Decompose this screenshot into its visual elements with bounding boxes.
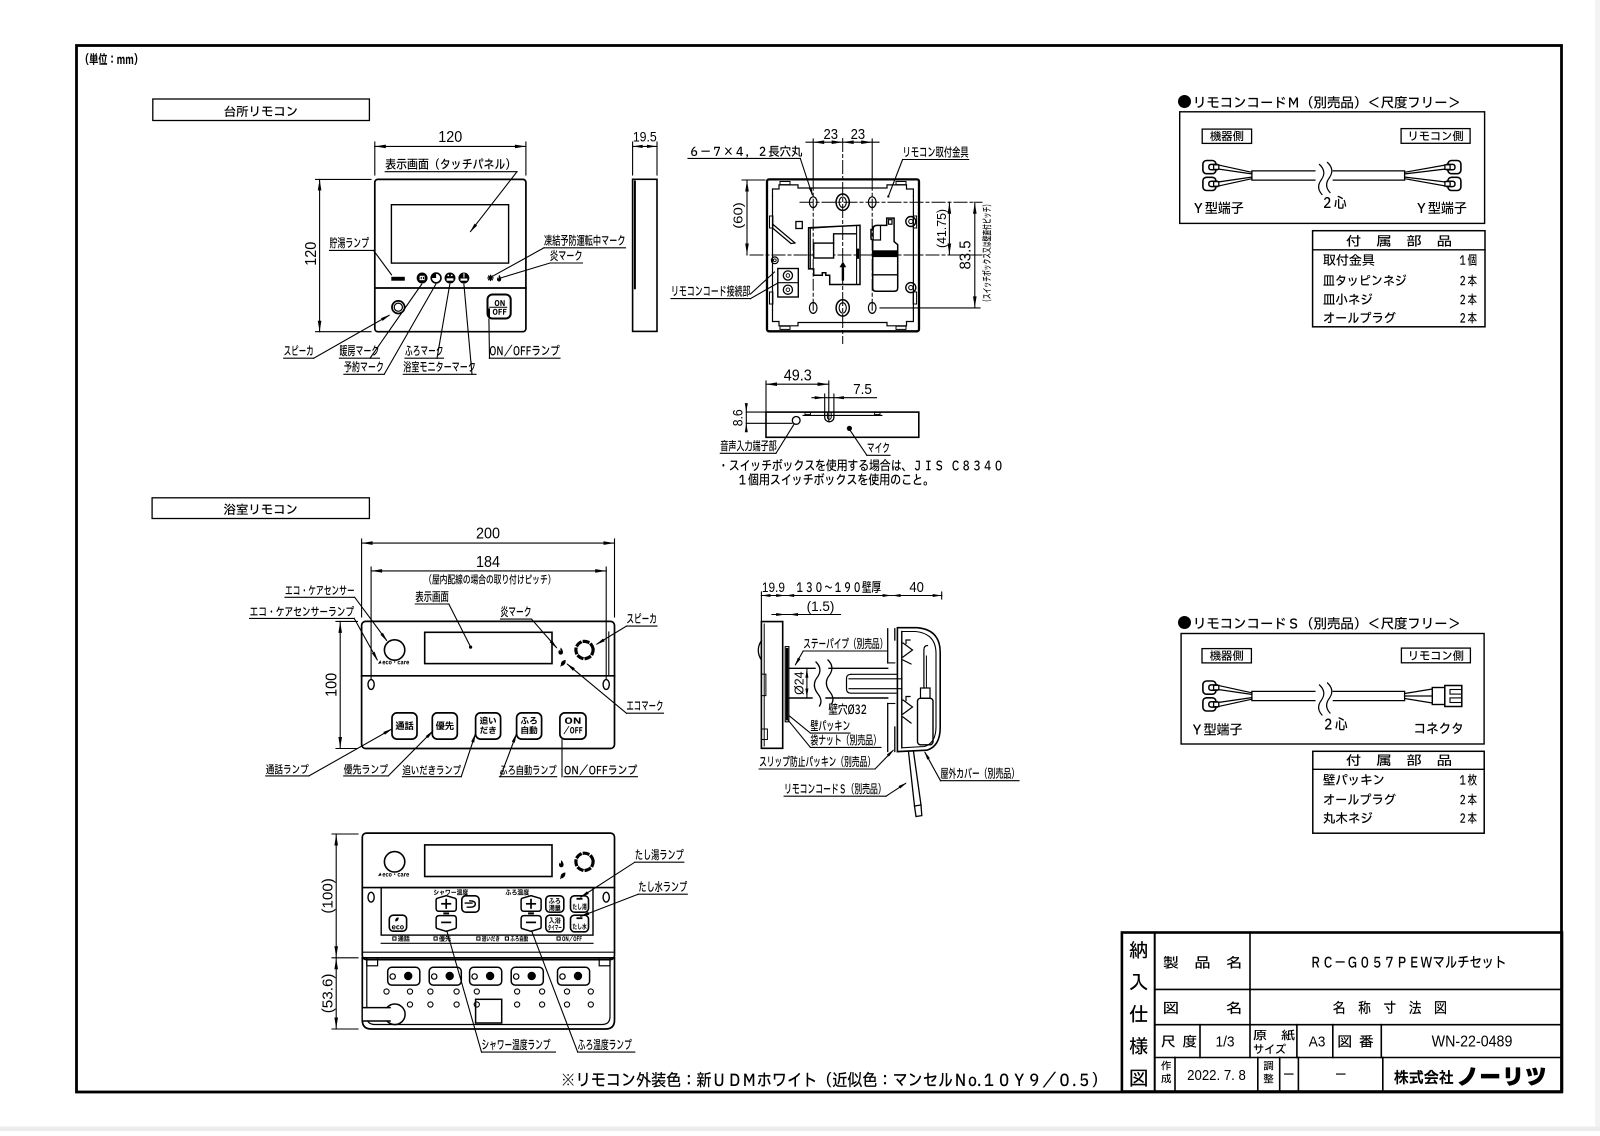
svg-text:(100): (100) xyxy=(321,878,337,914)
rear screw top-right xyxy=(906,217,916,227)
install wall section xyxy=(888,629,895,752)
label add hot water lamp xyxy=(580,849,684,898)
bath minus button xyxy=(521,916,541,932)
dim dia24 xyxy=(792,668,808,698)
label bath temp lamp xyxy=(532,931,635,1052)
note switch box pitch rotated xyxy=(982,205,991,302)
label display screen (touch panel) xyxy=(385,158,517,232)
accessory table M row1 xyxy=(1323,254,1476,266)
svg-text:49.3: 49.3 xyxy=(784,367,812,385)
bath hole right xyxy=(603,680,609,690)
cord M device side tag xyxy=(1202,129,1251,143)
svg-text:(60): (60) xyxy=(730,202,745,229)
open view display screen xyxy=(425,845,552,877)
open view eco care tiny label xyxy=(378,873,409,877)
rear hole top-center xyxy=(836,194,849,210)
dim 100 xyxy=(323,621,358,748)
svg-text:(41.75): (41.75) xyxy=(935,209,949,248)
svg-text:WN-22-0489: WN-22-0489 xyxy=(1432,1034,1513,1051)
bottom view body xyxy=(766,412,919,437)
rear hole top-left xyxy=(809,197,817,208)
rear hole bottom-right xyxy=(868,303,876,314)
open view eco leaf mark xyxy=(560,873,565,879)
accessory table S row1 xyxy=(1323,774,1476,786)
storage-lamp bar xyxy=(391,277,405,281)
svg-text:19.5: 19.5 xyxy=(633,129,657,145)
svg-text:83.5: 83.5 xyxy=(957,241,975,270)
rear small circle left xyxy=(771,257,778,264)
flame mark icon xyxy=(497,275,501,282)
bath button on-off xyxy=(560,713,586,739)
add hot water button xyxy=(571,896,589,912)
install outdoor cover xyxy=(897,628,940,752)
label bath mark xyxy=(405,284,450,358)
dim 8.6 xyxy=(730,403,792,432)
install inner pipe xyxy=(847,674,903,693)
bath flame mark xyxy=(558,648,563,655)
label freeze prevention mark xyxy=(493,235,626,277)
dim (53.6) xyxy=(321,958,358,1029)
label anti-slip packing xyxy=(759,749,894,769)
label flame mark xyxy=(502,250,583,278)
bottom hook slot xyxy=(825,412,834,422)
flap keyhole xyxy=(362,1004,405,1025)
bath hole left xyxy=(368,680,374,690)
rear center line mid xyxy=(750,254,982,256)
svg-text:120: 120 xyxy=(302,242,320,266)
title row1 product name xyxy=(1164,933,1505,990)
rear screw bottom-right xyxy=(906,283,916,293)
label long hole xyxy=(688,146,813,197)
label voice input terminal xyxy=(720,424,794,454)
bath front inner edge right xyxy=(608,632,610,676)
dim wall thickness xyxy=(785,581,891,597)
label storage lamp xyxy=(330,237,392,275)
bath lamp bar xyxy=(528,912,534,914)
dim 19.9 xyxy=(761,579,785,621)
cord M box xyxy=(1180,112,1485,224)
bath timer button xyxy=(546,915,564,932)
open view hole left xyxy=(368,892,374,902)
svg-text:23: 23 xyxy=(823,126,838,142)
cord M 2-core label xyxy=(1324,196,1346,209)
cord M remote side tag xyxy=(1401,129,1470,144)
kitchen display screen xyxy=(391,205,508,263)
cord M section title xyxy=(1178,95,1459,109)
rear terminal block xyxy=(778,269,799,298)
dim 200 xyxy=(362,525,615,617)
label stay pipe xyxy=(795,638,887,666)
add cold water button xyxy=(571,915,589,932)
rear view inner plate xyxy=(773,185,914,326)
svg-text:23: 23 xyxy=(851,126,866,142)
bath front divider xyxy=(362,675,615,677)
kitchen front panel divider xyxy=(375,287,526,289)
open view body xyxy=(362,833,614,960)
dim 120 width xyxy=(375,129,526,175)
label bath flame mark xyxy=(501,606,558,649)
label bath on-off lamp xyxy=(562,740,637,777)
tiny lamp label priority xyxy=(434,936,451,942)
cord M cable xyxy=(1203,161,1461,195)
cord S connector label xyxy=(1415,722,1462,734)
svg-text:Ø24: Ø24 xyxy=(792,672,806,695)
svg-text:(1.5): (1.5) xyxy=(807,599,835,614)
bath remote section label box xyxy=(152,498,369,519)
heating mark icon xyxy=(417,273,427,283)
flap hole row 2 xyxy=(407,1002,593,1007)
flap center rect xyxy=(476,999,502,1023)
open view flap xyxy=(362,958,614,1029)
dim (1.5) xyxy=(772,599,841,616)
cord S remote side tag xyxy=(1401,648,1470,663)
dim 49.3 xyxy=(766,367,829,422)
unit note (mm) xyxy=(86,53,138,65)
dim (100) xyxy=(321,834,358,958)
svg-text:19.9: 19.9 xyxy=(762,579,785,595)
dim (41.75) xyxy=(935,202,952,255)
label bath display screen xyxy=(415,591,472,649)
label bathroom monitor mark xyxy=(403,284,476,374)
bath front body xyxy=(362,621,615,748)
dim 120 height xyxy=(302,179,371,331)
svg-text:2022. 7. 8: 2022. 7. 8 xyxy=(1187,1066,1246,1083)
dim 19.5 depth xyxy=(633,129,657,175)
rear hole bottom-center xyxy=(836,300,849,316)
accessory table M header xyxy=(1346,235,1451,247)
svg-text:200: 200 xyxy=(476,525,500,543)
exterior color note xyxy=(563,1072,1097,1088)
cord S left terminal label xyxy=(1193,723,1242,736)
install connector inside cover xyxy=(918,646,934,745)
label speaker xyxy=(284,315,391,359)
tiny lamp label onoff xyxy=(557,936,582,942)
install wall packing strip xyxy=(785,647,789,722)
label wall hole dia32 xyxy=(829,703,867,715)
rear center line upper xyxy=(800,201,982,203)
label bath auto lamp xyxy=(499,733,556,777)
speaker hole xyxy=(392,301,405,314)
title block frame xyxy=(1122,933,1562,1092)
dim (60) xyxy=(730,180,765,255)
svg-text:40: 40 xyxy=(909,579,924,595)
bath eco leaf mark xyxy=(561,660,566,666)
bath mark icon xyxy=(445,273,455,283)
svg-text:8.6: 8.6 xyxy=(730,409,746,426)
label on-off lamp xyxy=(489,319,560,358)
rear view body xyxy=(767,179,919,331)
cord M left terminal label xyxy=(1194,202,1243,215)
on-off button xyxy=(487,295,511,319)
bath speaker xyxy=(576,641,593,658)
install cover clip top xyxy=(903,640,913,664)
rear corner tabs xyxy=(770,182,917,330)
label outdoor cover xyxy=(924,751,1019,781)
svg-text:100: 100 xyxy=(323,673,341,697)
svg-text:A3: A3 xyxy=(1309,1033,1326,1049)
label remote cord connection xyxy=(671,272,777,299)
open view flame mark xyxy=(559,860,564,867)
open view panel frame xyxy=(362,888,614,953)
flap bump 3 xyxy=(470,967,502,985)
shower minus button xyxy=(436,916,456,932)
bath display screen xyxy=(425,632,552,663)
accessory table M row3 xyxy=(1323,293,1476,305)
note switch box JIS xyxy=(722,459,1001,486)
bath button reheat xyxy=(476,713,501,739)
svg-text:(53.6): (53.6) xyxy=(321,973,337,1013)
cord S cable xyxy=(1203,681,1462,715)
kitchen remote section label box xyxy=(153,99,370,121)
label bath speaker xyxy=(595,613,657,645)
label eco mark xyxy=(566,663,663,713)
open view hole right xyxy=(603,892,609,902)
label microphone xyxy=(850,431,890,456)
rear right assembly xyxy=(871,218,898,291)
bottom view plate line xyxy=(803,413,882,416)
flap bump 5 xyxy=(558,967,590,985)
tiny lamp label auto xyxy=(505,936,528,942)
rear small square window xyxy=(796,222,802,229)
label reheat lamp xyxy=(402,733,475,777)
rear hole top-right xyxy=(868,197,876,208)
label shower temp tiny xyxy=(434,889,468,895)
open view speaker xyxy=(576,853,593,870)
flap bump 2 xyxy=(429,967,461,985)
install cord S xyxy=(909,752,922,817)
reservation mark icon xyxy=(431,273,441,283)
kitchen front body xyxy=(375,179,526,331)
cord S device side tag xyxy=(1202,649,1251,663)
shower onoff button xyxy=(462,896,479,912)
cord S box xyxy=(1181,634,1484,745)
open eco button xyxy=(389,915,406,931)
label remote cord S xyxy=(784,783,907,797)
bath button priority xyxy=(432,713,457,739)
dim 23 23 mounting pitch xyxy=(806,126,879,313)
label reservation mark xyxy=(344,284,436,374)
accessory table M row4 xyxy=(1324,312,1477,324)
rear center line vertical xyxy=(842,139,844,344)
bath volume button xyxy=(546,896,564,912)
label heating mark xyxy=(339,284,421,358)
title block spec column xyxy=(1130,933,1155,1092)
dim 40 xyxy=(892,579,942,599)
bath eco care sensor xyxy=(384,640,404,660)
kitchen side view body xyxy=(633,179,657,331)
open view eco care sensor xyxy=(384,852,404,872)
label add cold water lamp xyxy=(579,881,687,917)
title row2 drawing name xyxy=(1164,989,1446,1024)
bathroom monitor mark icon xyxy=(459,273,469,283)
label talk lamp xyxy=(266,728,393,776)
accessory table M box xyxy=(1313,231,1485,327)
accessory table M row2 xyxy=(1323,274,1476,286)
label shower temp lamp xyxy=(447,931,556,1052)
dim 184 xyxy=(371,553,606,679)
tiny lamp label talk xyxy=(393,936,410,942)
cord M right terminal label xyxy=(1417,202,1466,215)
voice terminal hole xyxy=(792,417,800,425)
bath eco care tiny label xyxy=(378,660,409,664)
install remote body xyxy=(758,622,782,749)
rear left diagonal brace xyxy=(773,224,796,244)
bath plus button xyxy=(521,896,541,912)
flap bump 1 xyxy=(388,967,420,985)
flap hole row 1 xyxy=(384,989,594,994)
label priority lamp xyxy=(344,730,434,776)
label cap nut xyxy=(788,720,881,747)
svg-text:184: 184 xyxy=(476,553,501,571)
label wall packing xyxy=(790,716,851,733)
rear hole bottom-left xyxy=(809,303,817,314)
accessory table S row3 xyxy=(1323,812,1476,824)
label remote mounting bracket xyxy=(887,146,969,197)
title block row lines xyxy=(1155,989,1562,1057)
shower lamp bar xyxy=(443,912,449,914)
svg-text:1/3: 1/3 xyxy=(1215,1033,1234,1049)
cord S section title xyxy=(1178,616,1459,630)
freeze-prevention mark icon xyxy=(488,275,493,280)
install stay pipe xyxy=(789,660,888,706)
note interior wiring pitch xyxy=(429,574,550,584)
install cover clip bottom xyxy=(903,697,913,724)
flap bump 4 xyxy=(511,967,543,985)
svg-text:7.5: 7.5 xyxy=(853,382,872,399)
accessory table S box xyxy=(1313,751,1484,833)
dim 83.5 xyxy=(880,202,980,308)
cord S 2-core label xyxy=(1325,717,1347,730)
title row4 cells xyxy=(1161,1058,1545,1092)
rear central plate xyxy=(809,225,860,284)
label eco care sensor xyxy=(285,585,388,642)
label bath temp tiny xyxy=(506,889,530,895)
title row3 cells xyxy=(1162,1025,1513,1058)
tiny lamp label reheat xyxy=(477,936,500,942)
shower plus button xyxy=(436,896,456,912)
bath button talk xyxy=(392,713,417,739)
svg-text:120: 120 xyxy=(438,129,462,147)
accessory table S row2 xyxy=(1324,793,1477,805)
dim 7.5 xyxy=(812,382,877,411)
microphone hole xyxy=(847,426,851,430)
label eco care sensor lamp xyxy=(250,606,378,661)
accessory table S header xyxy=(1346,754,1451,766)
bath button auto xyxy=(517,713,542,739)
